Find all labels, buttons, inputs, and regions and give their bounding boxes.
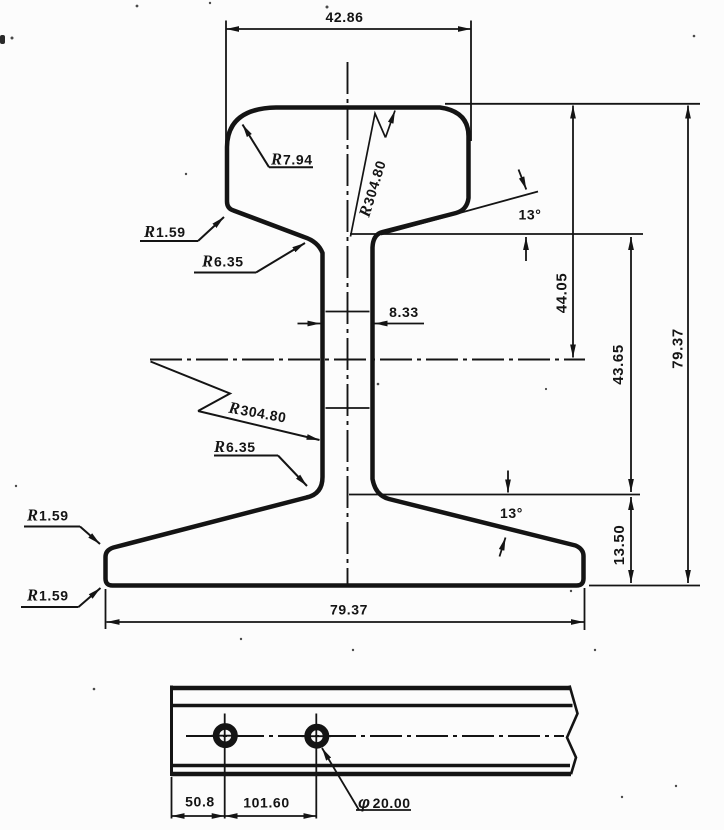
dimension line 42.86 xyxy=(226,28,471,30)
hole 1 vertical centerline xyxy=(224,714,226,819)
leader arrow R304.80 lower xyxy=(198,411,320,440)
svg-text:R7.94: R7.94 xyxy=(270,150,313,169)
inclined reference line upper 13deg xyxy=(381,192,538,235)
horizontal reference line upper 13deg xyxy=(350,233,643,235)
underline R6.35 upper xyxy=(194,272,256,274)
svg-text:42.86: 42.86 xyxy=(325,9,363,25)
horizontal centerline xyxy=(150,359,585,361)
underline R1.59 low-left xyxy=(21,606,79,608)
svg-text:44.05: 44.05 xyxy=(554,273,571,314)
bottom view top edge xyxy=(171,686,570,690)
underline R1.59 mid-left xyxy=(24,526,80,528)
web break line lower xyxy=(326,407,370,409)
rail cross-section profile outline xyxy=(106,108,584,586)
underline R1.59 upper xyxy=(140,240,198,242)
arrow to inclined line upper xyxy=(519,170,527,190)
svg-text:50.8: 50.8 xyxy=(185,794,215,810)
svg-text:R6.35: R6.35 xyxy=(201,252,244,271)
scan mark left edge xyxy=(0,35,5,44)
bottom view second line xyxy=(171,704,573,707)
svg-text:R1.59: R1.59 xyxy=(143,222,186,241)
bottom view left edge xyxy=(170,686,173,777)
underline phi 20.00 xyxy=(356,809,411,811)
leader phi 20.00 xyxy=(322,748,359,810)
arrow to horizontal line upper xyxy=(525,237,527,261)
svg-text:φ20.00: φ20.00 xyxy=(358,793,411,812)
extension line rail top to right xyxy=(445,103,700,105)
dimension line 79.37 bottom xyxy=(107,621,585,623)
svg-text:R1.59: R1.59 xyxy=(26,506,69,525)
svg-text:13°: 13° xyxy=(519,207,542,223)
svg-text:13.50: 13.50 xyxy=(611,525,628,566)
leader R304.80 upper zigzag xyxy=(351,114,386,237)
dimension line 44.05 xyxy=(572,106,574,358)
dimension line 43.65 xyxy=(630,237,632,492)
hole 1 xyxy=(216,726,234,744)
leader R7.94 xyxy=(243,125,270,168)
hole 2 horizontal centerline xyxy=(302,735,332,737)
extension line 42.86 left xyxy=(225,21,227,148)
hole 1 horizontal centerline xyxy=(212,735,239,737)
dimension 8.33 right arrow xyxy=(375,323,425,325)
underline R6.35 lower xyxy=(214,455,278,457)
extension line foot bottom right xyxy=(589,585,700,587)
svg-text:79.37: 79.37 xyxy=(330,602,368,618)
leader R6.35 upper xyxy=(256,243,305,273)
bottom view third line xyxy=(171,764,570,767)
horizontal reference line lower 13deg xyxy=(349,494,640,496)
underline R7.94 xyxy=(269,166,313,168)
leader R1.59 low-left xyxy=(79,588,101,607)
extension line foot right down xyxy=(584,588,586,630)
bottom view centerline xyxy=(186,735,564,737)
extension line 42.86 right xyxy=(470,21,472,142)
svg-text:79.37: 79.37 xyxy=(670,328,687,369)
svg-text:R6.35: R6.35 xyxy=(213,437,256,456)
extension line foot left down xyxy=(105,589,107,629)
leader R6.35 lower xyxy=(278,456,307,487)
svg-text:R1.59: R1.59 xyxy=(26,586,69,605)
dimension line 101.60 xyxy=(225,815,317,817)
svg-text:R304.80: R304.80 xyxy=(226,398,288,427)
dimension line 79.37 right xyxy=(687,106,689,584)
svg-text:101.60: 101.60 xyxy=(243,795,289,811)
hole 2 vertical centerline xyxy=(315,714,317,819)
svg-text:13°: 13° xyxy=(500,505,523,521)
svg-text:43.65: 43.65 xyxy=(610,344,627,385)
svg-text:8.33: 8.33 xyxy=(389,304,419,320)
bottom view left extension line xyxy=(171,777,173,819)
leader R1.59 mid-left xyxy=(80,527,100,545)
dimension 8.33 left arrow xyxy=(298,323,321,325)
bottom view bottom edge xyxy=(171,772,571,776)
leader R1.59 upper xyxy=(198,217,224,241)
bottom view break line right xyxy=(567,686,578,775)
dimension line 13.50 xyxy=(630,497,632,583)
leader arrow R304.80 upper xyxy=(386,111,396,138)
web break line upper xyxy=(326,311,370,313)
vertical centerline xyxy=(347,62,349,586)
arrow to horizontal line lower xyxy=(507,471,509,493)
dimension line 50.8 xyxy=(172,815,225,817)
hole 2 xyxy=(308,727,326,745)
leader R304.80 lower zigzag xyxy=(151,362,231,412)
arrow to foot slope lower xyxy=(500,538,506,557)
